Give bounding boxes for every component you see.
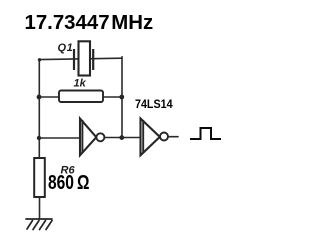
svg-text:1k: 1k — [74, 78, 87, 90]
svg-text:Q1: Q1 — [58, 42, 74, 54]
